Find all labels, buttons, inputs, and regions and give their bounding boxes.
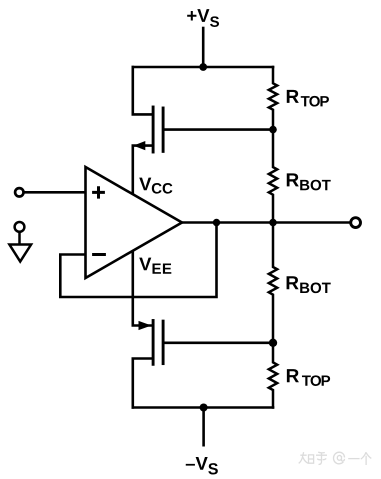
transistor M1 (top MOSFET) [133, 107, 163, 152]
label RBOT lower sub: BOT [300, 283, 331, 294]
label VCC sub: CC [152, 183, 173, 194]
label RBOT upper sub: BOT [300, 180, 331, 191]
ground [9, 222, 31, 262]
label +VS main: +V [187, 9, 209, 22]
op-amp minus input symbol [92, 253, 106, 256]
node +VS supply stem wire [202, 28, 205, 67]
label RBOT upper main: R [287, 173, 299, 186]
resistor RTOP (upper) [269, 67, 277, 130]
label RTOP upper sub: TOP [301, 96, 329, 107]
wire -VS supply stem [202, 408, 205, 446]
node output junction (feedback) [213, 219, 220, 226]
wire VEE pin to M2 source [133, 249, 152, 326]
wire top rail [133, 66, 273, 69]
op-amp plus input symbol [92, 186, 105, 198]
resistor RBOT (lower) [269, 223, 277, 343]
node +VS junction [199, 63, 207, 71]
node -VS junction [200, 404, 208, 412]
wire M2 gate lead [164, 341, 273, 344]
label RBOT lower main: R [287, 276, 299, 289]
label RTOP upper main: R [287, 90, 299, 103]
label VEE sub: EE [153, 263, 172, 273]
label VEE main: V [139, 258, 151, 271]
wire bottom rail [133, 406, 273, 409]
label RTOP lower main: R [287, 369, 299, 382]
junction dots [199, 63, 277, 411]
transistor M2 (bottom MOSFET) [139, 321, 164, 365]
wire feedback loop [60, 223, 216, 298]
output terminal [351, 218, 361, 228]
label -VS main: –V [186, 457, 208, 470]
node RBOT/RTOP lower junction [269, 339, 277, 347]
input terminal [15, 188, 23, 196]
label -VS sub: S [208, 463, 218, 474]
wire M1 gate lead [164, 128, 273, 131]
label RTOP lower sub: TOP [302, 375, 330, 386]
wire M1 drain lead [133, 67, 152, 114]
label VCC main: V [139, 178, 151, 191]
resistor RTOP (lower) [269, 343, 277, 408]
wire M2 drain lead [133, 359, 152, 408]
watermark [299, 452, 372, 465]
wire M1 source lead to VCC pin [133, 146, 152, 196]
wire output line [182, 221, 351, 224]
resistor RBOT (upper) [269, 130, 277, 223]
op-amp U1 [86, 167, 183, 278]
wire input lead [23, 191, 85, 194]
label +VS sub: S [210, 16, 219, 27]
node output junction (divider) [269, 219, 277, 227]
node RTOP/RBOT upper junction [269, 126, 277, 134]
